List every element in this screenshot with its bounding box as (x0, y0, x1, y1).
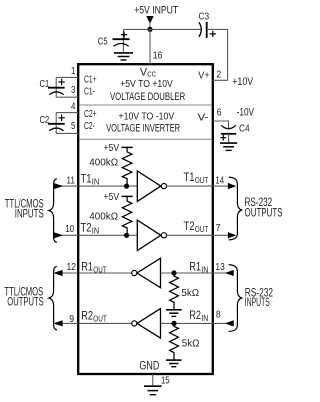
svg-text:400kΩ: 400kΩ (89, 156, 118, 168)
capacitor C2 curved plate (49, 128, 63, 131)
svg-text:+5V INPUT: +5V INPUT (134, 4, 178, 16)
junction T1 input node (124, 184, 129, 189)
IC text +5V TO +10V (120, 79, 173, 90)
IC pin label R1 IN (189, 261, 208, 274)
label RS-232 OUTPUTS (245, 197, 283, 219)
pin number 11 (67, 174, 76, 186)
svg-text:T1: T1 (81, 173, 92, 185)
ground symbol for R1 5k (166, 310, 182, 317)
svg-text:+5V: +5V (103, 191, 119, 203)
IC pin label C2+ (84, 108, 97, 120)
IC pin label T2 IN (81, 223, 100, 236)
wire T1 output internal (167, 185, 213, 187)
svg-text:C5: C5 (98, 35, 108, 47)
IC pin label C1- (84, 86, 95, 98)
svg-text:GND: GND (139, 360, 159, 372)
capacitor C3 label (199, 10, 210, 22)
capacitor C4 straight plate (221, 133, 236, 135)
svg-text:1: 1 (71, 65, 76, 77)
wire T2 input external (54, 234, 78, 236)
wire R1 output internal (79, 272, 131, 274)
pin number 15 (161, 375, 170, 387)
brace TTL/CMOS outputs (49, 266, 57, 330)
ground symbol for R2 5k (166, 360, 182, 367)
svg-text:10: 10 (65, 223, 74, 235)
pin number 4 (71, 100, 76, 112)
label TTL/CMOS OUTPUTS (4, 286, 44, 308)
IC pin label R2 OUT (81, 311, 107, 324)
pin number 6 (217, 107, 222, 119)
wire R1 input internal (161, 272, 213, 274)
svg-text:IN: IN (201, 314, 208, 323)
capacitor C2 plus sign (58, 115, 64, 121)
wire R1 input external (213, 272, 234, 274)
svg-text:15: 15 (161, 375, 170, 387)
capacitor C5 curved plate (114, 44, 129, 47)
svg-text:+5V TO +10V: +5V TO +10V (120, 79, 173, 90)
svg-text:OUT: OUT (195, 176, 208, 185)
IC U1 body (78, 64, 213, 374)
svg-text:11: 11 (67, 174, 76, 186)
IC pin label T1 OUT (184, 172, 209, 185)
IC pin label R2 IN (189, 310, 208, 323)
svg-text:C2+: C2+ (84, 108, 97, 120)
wire GND pin 15 (152, 374, 154, 386)
svg-text:IN: IN (92, 227, 100, 236)
pin number 3 (71, 84, 76, 96)
svg-text:+10V: +10V (232, 76, 254, 88)
junction T2 input node (124, 233, 129, 238)
wire VCC pin 16 (149, 29, 151, 64)
svg-text:C1+: C1+ (84, 73, 97, 85)
svg-text:8: 8 (216, 309, 221, 321)
resistor 5k R2 value label (182, 337, 200, 349)
wire pin 4 stub (56, 112, 78, 114)
capacitor C1 label (40, 78, 50, 90)
svg-text:5kΩ: 5kΩ (181, 287, 199, 299)
wire pin 6 stub to C4 (213, 121, 229, 128)
brace RS-232 inputs (229, 265, 242, 332)
wire R2 output internal (79, 322, 131, 324)
svg-text:14: 14 (215, 174, 224, 186)
capacitor C1 curved plate (49, 92, 63, 95)
IC internal divider 1 (79, 104, 211, 106)
svg-text:C2: C2 (40, 114, 50, 126)
+5V input arrow (146, 16, 153, 24)
resistor 400k T1 rail bar (122, 146, 133, 148)
pin number 14 (215, 174, 224, 186)
ground symbol for C5 (114, 53, 133, 60)
IC pin label C1+ (84, 73, 97, 85)
IC pin label VCC (140, 66, 157, 78)
svg-text:7: 7 (216, 222, 221, 234)
IC pin label GND (139, 360, 159, 372)
svg-text:OUT: OUT (195, 225, 208, 234)
brace TTL/CMOS inputs (49, 179, 57, 243)
receiver R1 (132, 258, 161, 288)
pin number 12 (67, 261, 77, 273)
IC pin label R1 OUT (81, 261, 107, 274)
pin number 7 (216, 222, 221, 234)
svg-text:IN: IN (92, 177, 100, 186)
junction +5V node (147, 27, 152, 32)
svg-text:5kΩ: 5kΩ (182, 337, 200, 349)
svg-text:13: 13 (215, 261, 225, 273)
svg-text:2: 2 (216, 69, 221, 81)
wire C1 lead (55, 77, 57, 97)
wire pin 1 stub (56, 76, 78, 78)
resistor 400k T2 value label (89, 210, 118, 222)
wire T1 input external (54, 185, 78, 187)
svg-text:VOLTAGE DOUBLER: VOLTAGE DOUBLER (110, 91, 185, 103)
svg-text:4: 4 (71, 100, 76, 112)
svg-text:-10V: -10V (237, 107, 255, 119)
capacitor C1 top plate (48, 87, 65, 89)
svg-text:16: 16 (153, 50, 163, 62)
svg-text:6: 6 (217, 107, 222, 119)
resistor 5k R1 (170, 273, 179, 310)
svg-text:+5V: +5V (103, 142, 119, 154)
svg-text:C2-: C2- (84, 120, 95, 132)
arrow out of pin 9 (53, 320, 62, 326)
wire T2 input internal (79, 234, 137, 236)
ground symbol for C4 (220, 143, 237, 150)
wire C2 lead (55, 113, 57, 134)
svg-text:INPUTS: INPUTS (245, 297, 270, 309)
arrow out of pin 7 (228, 232, 236, 238)
inverter driver T2 (137, 220, 166, 251)
resistor 5k R1 value label (181, 287, 199, 299)
capacitor C2 top plate (48, 123, 65, 125)
wire C4 lower lead (228, 134, 230, 143)
IC pin label C2- (84, 120, 95, 132)
svg-text:C1-: C1- (84, 86, 95, 98)
wire T1 output external (213, 185, 229, 187)
node +5V label T1 pull-up (103, 142, 119, 154)
wire R2 output external (62, 322, 78, 324)
resistor 400k T2 rail bar (122, 195, 133, 197)
svg-text:CC: CC (147, 70, 156, 79)
arrow out of pin 14 (228, 183, 236, 189)
svg-text:400kΩ: 400kΩ (89, 210, 118, 222)
svg-text:12: 12 (67, 261, 77, 273)
svg-text:R2: R2 (189, 310, 201, 322)
receiver R2 (132, 309, 161, 339)
wire +5V rail horizontal (123, 28, 201, 30)
svg-text:5: 5 (71, 120, 76, 132)
node -10V label (237, 107, 255, 119)
wire C3 to V+ pin 2 (207, 29, 228, 80)
pin number 2 (216, 69, 221, 81)
wire R2 input internal (161, 322, 213, 324)
wire R2 input external (213, 322, 234, 324)
pin number 9 (69, 313, 74, 325)
label RS-232 INPUTS (245, 288, 273, 310)
svg-text:IN: IN (201, 265, 208, 274)
wire R1 output external (62, 272, 78, 274)
node +5V INPUT label (134, 4, 178, 16)
wire C5 lead (122, 29, 124, 52)
svg-text:C4: C4 (239, 122, 250, 134)
resistor 400k T1 (122, 147, 132, 186)
pin number 8 (216, 309, 221, 321)
wire pin 3 stub (56, 96, 78, 98)
svg-text:VOLTAGE INVERTER: VOLTAGE INVERTER (106, 122, 180, 134)
svg-text:R1: R1 (81, 261, 93, 273)
capacitor C3 straight plate (206, 22, 208, 38)
IC internal divider 2 (79, 138, 211, 140)
wire T2 output internal (167, 234, 213, 236)
arrow into pin 13 (225, 270, 234, 276)
svg-text:T2: T2 (81, 223, 92, 235)
capacitor C2 label (40, 114, 50, 126)
capacitor C5 value label (98, 35, 108, 47)
pin number 13 (215, 261, 225, 273)
pin number 1 (71, 65, 76, 77)
pin number 16 (153, 50, 163, 62)
svg-text:V+: V+ (198, 69, 209, 81)
svg-text:+10V TO -10V: +10V TO -10V (119, 111, 175, 122)
resistor 400k T1 value label (89, 156, 118, 168)
capacitor C5 top plate (113, 38, 130, 40)
svg-text:OUTPUTS: OUTPUTS (245, 207, 283, 219)
svg-text:C1: C1 (40, 78, 50, 90)
arrow into pin 10 (53, 232, 63, 238)
capacitor C5 plus sign (121, 32, 127, 38)
svg-text:T2: T2 (184, 221, 195, 233)
arrow into pin 8 (225, 320, 234, 326)
IC text VOLTAGE INVERTER (106, 122, 180, 134)
IC pin label T1 IN (81, 173, 100, 186)
brace RS-232 outputs (229, 177, 242, 240)
capacitor C3 curved plate (199, 22, 201, 37)
capacitor C1 plus sign (58, 79, 64, 85)
svg-text:OUTPUTS: OUTPUTS (7, 297, 44, 309)
junction R2 input node (171, 321, 176, 326)
pin number 10 (65, 223, 74, 235)
capacitor C4 curved plate (221, 125, 236, 128)
wire T1 input internal (79, 185, 137, 187)
capacitor C4 plus sign (220, 135, 226, 141)
IC pin label V- (198, 112, 210, 124)
svg-text:OUT: OUT (93, 315, 106, 324)
IC pin label V+ (198, 69, 209, 81)
wire pin 5 stub (56, 132, 78, 134)
junction R1 input node (171, 270, 176, 275)
label TTL/CMOS INPUTS (5, 199, 44, 221)
pin number 5 (71, 120, 76, 132)
IC pin label T2 OUT (184, 221, 209, 234)
IC text VOLTAGE DOUBLER (110, 91, 185, 103)
wire T2 output external (213, 234, 229, 236)
resistor 5k R2 (170, 323, 179, 360)
svg-text:C3: C3 (199, 10, 210, 22)
capacitor C4 label (239, 122, 250, 134)
svg-text:R2: R2 (81, 311, 93, 323)
svg-text:R1: R1 (189, 261, 201, 273)
svg-text:V-: V- (198, 112, 210, 124)
capacitor C3 plus sign (210, 31, 216, 37)
arrow out of pin 12 (53, 270, 62, 276)
inverter driver T1 (137, 171, 166, 202)
IC text +10V TO -10V (119, 111, 175, 122)
svg-text:3: 3 (71, 84, 76, 96)
wire +5V input vertical drop (149, 22, 151, 29)
resistor 400k T2 (122, 196, 132, 235)
svg-text:INPUTS: INPUTS (15, 209, 44, 221)
node +5V label T2 pull-up (103, 191, 119, 203)
node +10V label (232, 76, 254, 88)
ground symbol pin 15 (144, 386, 162, 395)
svg-text:T1: T1 (184, 172, 195, 184)
arrow into pin 11 (53, 183, 63, 189)
